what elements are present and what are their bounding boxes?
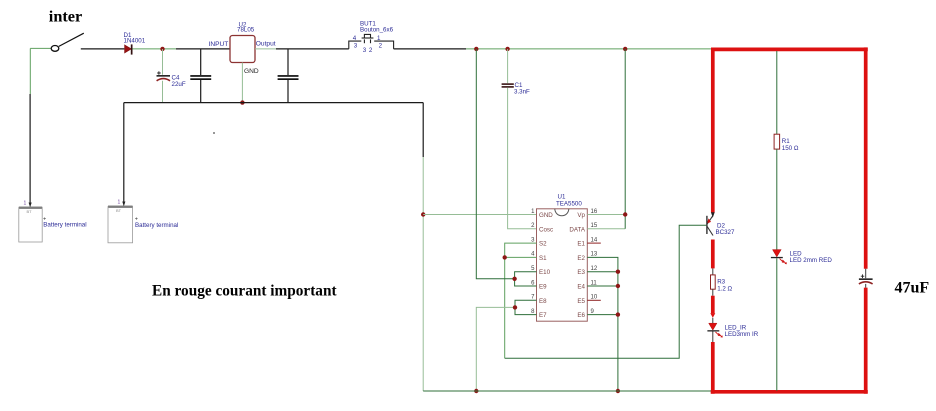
node junction xyxy=(474,389,478,393)
svg-text:8: 8 xyxy=(531,309,535,315)
wire R1 branch top xyxy=(776,51,778,134)
node junction xyxy=(505,47,509,51)
svg-text:1: 1 xyxy=(24,201,27,207)
svg-text:22uF: 22uF xyxy=(172,81,186,88)
wire gnd riser green xyxy=(422,157,424,391)
svg-text:3.3nF: 3.3nF xyxy=(514,89,530,96)
node junction xyxy=(616,284,620,288)
svg-text:E8: E8 xyxy=(539,298,547,305)
thick red left upper xyxy=(711,49,715,212)
svg-text:2: 2 xyxy=(369,47,373,54)
thick red right lower xyxy=(864,288,868,394)
pin names left xyxy=(539,212,553,319)
wire pin11 E4 xyxy=(587,285,618,287)
button BUT1 xyxy=(349,20,394,53)
wire pin9 E6 xyxy=(587,314,618,316)
svg-text:DATA: DATA xyxy=(569,226,585,233)
svg-text:Battery terminal: Battery terminal xyxy=(135,222,178,229)
wire pin16 Vp xyxy=(587,214,625,216)
svg-text:GND: GND xyxy=(539,212,553,219)
svg-text:4: 4 xyxy=(353,35,357,42)
battery terminal 2 xyxy=(108,200,178,243)
LED_IR xyxy=(707,323,758,338)
node junction xyxy=(616,312,620,316)
thick red bottom xyxy=(711,390,868,394)
node junction xyxy=(240,100,244,104)
node junction xyxy=(623,47,627,51)
node junction xyxy=(503,255,507,259)
svg-text:10: 10 xyxy=(591,295,598,301)
svg-text:3: 3 xyxy=(354,42,358,49)
svg-text:Cosc: Cosc xyxy=(539,226,553,233)
node junction xyxy=(616,389,620,393)
transistor D2 BC327 xyxy=(707,212,735,236)
svg-text:E1: E1 xyxy=(577,241,585,248)
wire battery2 drop xyxy=(123,103,125,203)
svg-text:15: 15 xyxy=(591,223,598,229)
regulator U2 78L05 xyxy=(209,22,276,75)
svg-text:GND: GND xyxy=(244,68,259,75)
svg-text:4: 4 xyxy=(531,252,535,258)
svg-text:S2: S2 xyxy=(539,241,547,248)
svg-text:1: 1 xyxy=(531,209,535,215)
svg-text:1: 1 xyxy=(118,200,121,206)
thick red right upper xyxy=(864,47,868,268)
wire xyxy=(776,149,778,250)
wire xyxy=(712,268,714,275)
svg-text:S1: S1 xyxy=(539,255,547,262)
wire xyxy=(712,332,714,343)
thick red left lower xyxy=(711,342,715,394)
svg-text:1N4001: 1N4001 xyxy=(124,38,146,45)
svg-text:TEA5500: TEA5500 xyxy=(556,201,582,208)
svg-text:13: 13 xyxy=(591,252,598,258)
capacitor C4 xyxy=(157,49,186,103)
node junction xyxy=(623,212,627,216)
wire gnd bottom bus xyxy=(423,390,711,392)
stray dot xyxy=(213,132,215,134)
svg-text:47uF: 47uF xyxy=(895,280,930,297)
svg-text:2: 2 xyxy=(379,42,383,49)
thick red collector segment xyxy=(711,240,715,269)
wire xyxy=(394,48,466,50)
wire xyxy=(176,48,230,50)
node junction xyxy=(512,277,516,281)
svg-text:E10: E10 xyxy=(539,269,551,276)
svg-text:1: 1 xyxy=(377,35,381,42)
svg-text:7: 7 xyxy=(531,295,535,301)
svg-text:9: 9 xyxy=(591,309,595,315)
wire xyxy=(29,48,31,94)
svg-text:2: 2 xyxy=(531,223,535,229)
svg-text:E5: E5 xyxy=(577,298,585,305)
capacitor C1 xyxy=(502,49,537,229)
svg-text:En rouge courant important: En rouge courant important xyxy=(152,282,337,299)
svg-text:12: 12 xyxy=(591,266,598,272)
svg-text:BT: BT xyxy=(27,209,33,214)
wire bottom gnd xyxy=(124,102,423,104)
svg-text:3: 3 xyxy=(531,237,535,243)
resistor R3 xyxy=(711,275,733,293)
pin numbers right xyxy=(591,209,598,315)
wire pin4 S1 xyxy=(505,256,537,258)
svg-text:Output: Output xyxy=(256,41,276,48)
wire xyxy=(81,48,125,50)
node junction xyxy=(421,212,425,216)
thick red with arrow xyxy=(711,296,715,314)
svg-text:14: 14 xyxy=(591,237,598,243)
thick red top xyxy=(711,48,868,52)
wire E8/E7 bracket xyxy=(515,300,537,314)
wire E10/E9 bracket xyxy=(515,272,537,286)
resistor R1 xyxy=(774,134,799,152)
svg-text:3: 3 xyxy=(363,47,367,54)
wire xyxy=(30,47,51,49)
wire pin1 GND net xyxy=(423,214,536,216)
wire xyxy=(133,48,177,50)
svg-text:INPUT: INPUT xyxy=(209,41,229,48)
svg-text:BC327: BC327 xyxy=(716,229,735,236)
wire S1/S2 to base xyxy=(505,225,707,358)
svg-text:E2: E2 xyxy=(577,255,585,262)
wire pin13 E2 xyxy=(587,257,618,391)
wire +5V drop to Vp/DATA xyxy=(624,49,626,229)
svg-text:Vp: Vp xyxy=(577,212,585,219)
IC U1 TEA5500 xyxy=(537,194,588,322)
svg-text:U1: U1 xyxy=(558,194,566,201)
pin numbers left xyxy=(531,209,535,315)
svg-text:Battery terminal: Battery terminal xyxy=(43,221,86,228)
switch S inter xyxy=(51,33,84,51)
svg-text:BT: BT xyxy=(116,208,122,213)
wire xyxy=(712,289,714,296)
svg-text:E6: E6 xyxy=(577,312,585,319)
svg-text:inter: inter xyxy=(49,6,82,25)
wire xyxy=(29,94,31,203)
diode D1 xyxy=(124,32,146,55)
svg-text:LED3mm IR: LED3mm IR xyxy=(725,331,759,338)
wire +5V to E10/E9 xyxy=(476,49,514,279)
svg-text:E7: E7 xyxy=(539,312,547,319)
pin14 stub xyxy=(587,242,601,244)
svg-text:LED 2mm RED: LED 2mm RED xyxy=(790,257,833,264)
svg-text:R3: R3 xyxy=(717,279,725,286)
svg-text:150 Ω: 150 Ω xyxy=(782,145,799,152)
wire xyxy=(276,48,349,50)
node junction xyxy=(160,47,164,51)
battery terminal 1 xyxy=(19,201,87,243)
wire xyxy=(712,318,714,323)
svg-text:11: 11 xyxy=(591,280,598,286)
svg-text:E4: E4 xyxy=(577,284,585,291)
svg-text:E3: E3 xyxy=(577,269,585,276)
svg-text:Bouton_6x6: Bouton_6x6 xyxy=(360,26,394,33)
LED D red xyxy=(771,250,832,265)
svg-text:E9: E9 xyxy=(539,284,547,291)
wire top +5V xyxy=(466,48,712,50)
svg-text:1.2 Ω: 1.2 Ω xyxy=(717,286,732,293)
svg-text:6: 6 xyxy=(531,280,535,286)
wire U2 GND drop xyxy=(241,63,243,103)
wire pin3 S2 xyxy=(505,243,537,358)
wire pin15 DATA xyxy=(587,228,625,230)
wire E8/E7 to gnd bus xyxy=(476,307,515,391)
wire pin12 E3 xyxy=(587,271,618,273)
pin10 stub xyxy=(587,299,601,301)
svg-text:78L05: 78L05 xyxy=(237,27,255,34)
pin names right xyxy=(569,212,585,319)
node junction xyxy=(474,47,478,51)
capacitor 47uF xyxy=(859,269,873,288)
wire xyxy=(255,48,276,50)
capacitor (output filter) xyxy=(278,49,299,103)
wire gnd riser xyxy=(422,103,424,157)
wire xyxy=(776,258,778,391)
node junction xyxy=(616,270,620,274)
node junction xyxy=(513,305,517,309)
svg-text:5: 5 xyxy=(531,266,535,272)
svg-text:16: 16 xyxy=(591,209,598,215)
capacitor (input filter) xyxy=(190,49,211,103)
